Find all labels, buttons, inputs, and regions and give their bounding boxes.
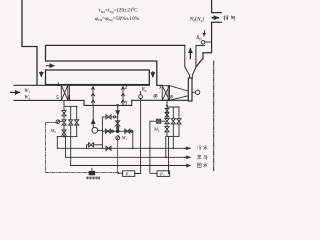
- steam manifold header under reheater: [166, 100, 179, 107]
- node flange circle mixing left: [111, 130, 113, 132]
- valve bypass lower: [87, 143, 103, 149]
- text block top formulas: [95, 7, 140, 22]
- valve V8e branch3: [177, 107, 181, 136]
- fan motor: [195, 90, 199, 94]
- actuator M3: [56, 120, 62, 124]
- svg-text:M3: M3: [50, 128, 57, 134]
- steam line: [66, 156, 190, 158]
- wire pump suction: [98, 130, 103, 132]
- node flange circle on return branch: [117, 127, 119, 129]
- wire room right wall: [22, 0, 37, 85]
- node three-way mixing junction: [116, 129, 120, 133]
- fan body: [188, 78, 192, 101]
- svg-text:Wd: Wd: [24, 96, 30, 101]
- valve V5c: [62, 130, 66, 137]
- node manifold junction: [63, 136, 65, 138]
- controller P2 box: [157, 171, 170, 177]
- node flange circle upper: [113, 116, 115, 118]
- text exhaust air glyphs (pai qi): [223, 16, 235, 21]
- valve on chilled water line: [106, 146, 111, 150]
- actuator M2: [157, 119, 165, 123]
- wire utility drops from preheater manifold: [57, 137, 70, 166]
- wire down arrow in room-side gap: [40, 72, 42, 77]
- valve V6 branch2: [69, 106, 73, 136]
- boundary dash-dot line: [213, 61, 215, 171]
- wire fresh air duct top line: [14, 84, 162, 86]
- valve on return branch: [116, 121, 120, 126]
- valve V5a: [62, 111, 66, 120]
- node P1 input dot: [118, 172, 120, 174]
- svg-text:φNd=φNg=50%±10%: φNd=φNg=50%±10%: [95, 16, 140, 22]
- text caption marks under instrument: [86, 177, 100, 180]
- svg-text:3: 3: [159, 85, 162, 90]
- wire steam supply drop to steam line: [165, 136, 167, 157]
- valve mixing left: [105, 129, 110, 133]
- preheater manifold header: [64, 100, 77, 110]
- valve V8d branch2: [171, 107, 175, 136]
- wire riser up arrow: [92, 120, 94, 123]
- text utility legend glyphs (leng shui / zheng qi / hui shui): [197, 145, 207, 167]
- valve V7 branch3: [75, 106, 79, 136]
- sensor R6: [139, 95, 143, 99]
- actuator M1: [116, 136, 120, 140]
- svg-text:2: 2: [125, 85, 128, 90]
- svg-text:R6: R6: [141, 88, 147, 93]
- wire preheater manifold bottom header: [57, 136, 77, 138]
- valve mixing right: [125, 129, 130, 133]
- svg-text:7: 7: [125, 102, 128, 107]
- text damper numbers: [56, 83, 173, 107]
- chilled water line: [57, 147, 189, 149]
- controller P1 box: [123, 171, 135, 177]
- wire fresh air duct bottom line: [14, 99, 188, 101]
- node flange circle mixing right: [131, 130, 133, 132]
- return water line: [71, 165, 189, 167]
- wire sensor R6 lead down to controller P1: [135, 99, 141, 174]
- wire M3 control dash-dot line to controller bus: [46, 123, 119, 173]
- return water branch from sump: [117, 105, 119, 131]
- wire up arrow in diffuser: [189, 49, 191, 59]
- node junction dots on utility lines: [117, 147, 174, 166]
- fan discharge diffuser: [185, 45, 205, 78]
- wire spray chamber sump: [84, 100, 132, 105]
- svg-text:Rf2: Rf2: [195, 36, 202, 41]
- wire P2 left lead: [150, 121, 157, 173]
- wire chilled water branch down: [132, 131, 134, 148]
- svg-text:tNd=tNg=(20±2)°C: tNd=tNg=(20±2)°C: [99, 7, 138, 14]
- node sump junction: [116, 104, 119, 106]
- wire M1 control line down: [117, 140, 119, 173]
- wire return duct (lower duct rectangle): [46, 70, 150, 85]
- mixing line with valves: [102, 130, 132, 132]
- wire down arrow on return branch: [117, 112, 119, 115]
- exhaust stack and outlet mouth: [196, 0, 221, 67]
- svg-text:Nd(Ng): Nd(Ng): [189, 15, 205, 22]
- wire P2 right riser to manifold: [169, 136, 174, 173]
- node fresh air inlet arrow W: [11, 91, 20, 93]
- pump riser to spray header: [92, 105, 94, 127]
- wire supply duct (upper duct): [46, 45, 185, 85]
- pump: [92, 127, 98, 133]
- damper/preheater box 1 with X: [61, 85, 69, 100]
- wire steam manifold bottom header: [167, 135, 179, 137]
- valve V8a twin bowties: [165, 107, 169, 119]
- fan inlet cone: [170, 86, 189, 101]
- svg-text:Wx: Wx: [24, 89, 30, 94]
- svg-text:(8: (8: [153, 95, 158, 100]
- spray standpipe 2 with nozzles: [122, 87, 125, 105]
- valve V8c: [165, 127, 169, 137]
- reheater box 2 with X: [162, 86, 169, 101]
- wire suction riser: [101, 117, 103, 148]
- node exhaust arrow: [212, 17, 218, 19]
- svg-text:M1: M1: [121, 135, 128, 141]
- instrument on control bus: [89, 171, 96, 175]
- valve V5b: [62, 120, 66, 130]
- svg-text:M2: M2: [153, 127, 160, 133]
- spray standpipe 1 with nozzles: [92, 87, 95, 105]
- valve V8b: [165, 119, 169, 127]
- wire flow arrow right between ducts: [47, 65, 55, 67]
- sensor Ri2: [201, 40, 205, 44]
- wire down arrow in recirculation channel: [152, 72, 154, 77]
- valve bypass upper: [102, 115, 117, 119]
